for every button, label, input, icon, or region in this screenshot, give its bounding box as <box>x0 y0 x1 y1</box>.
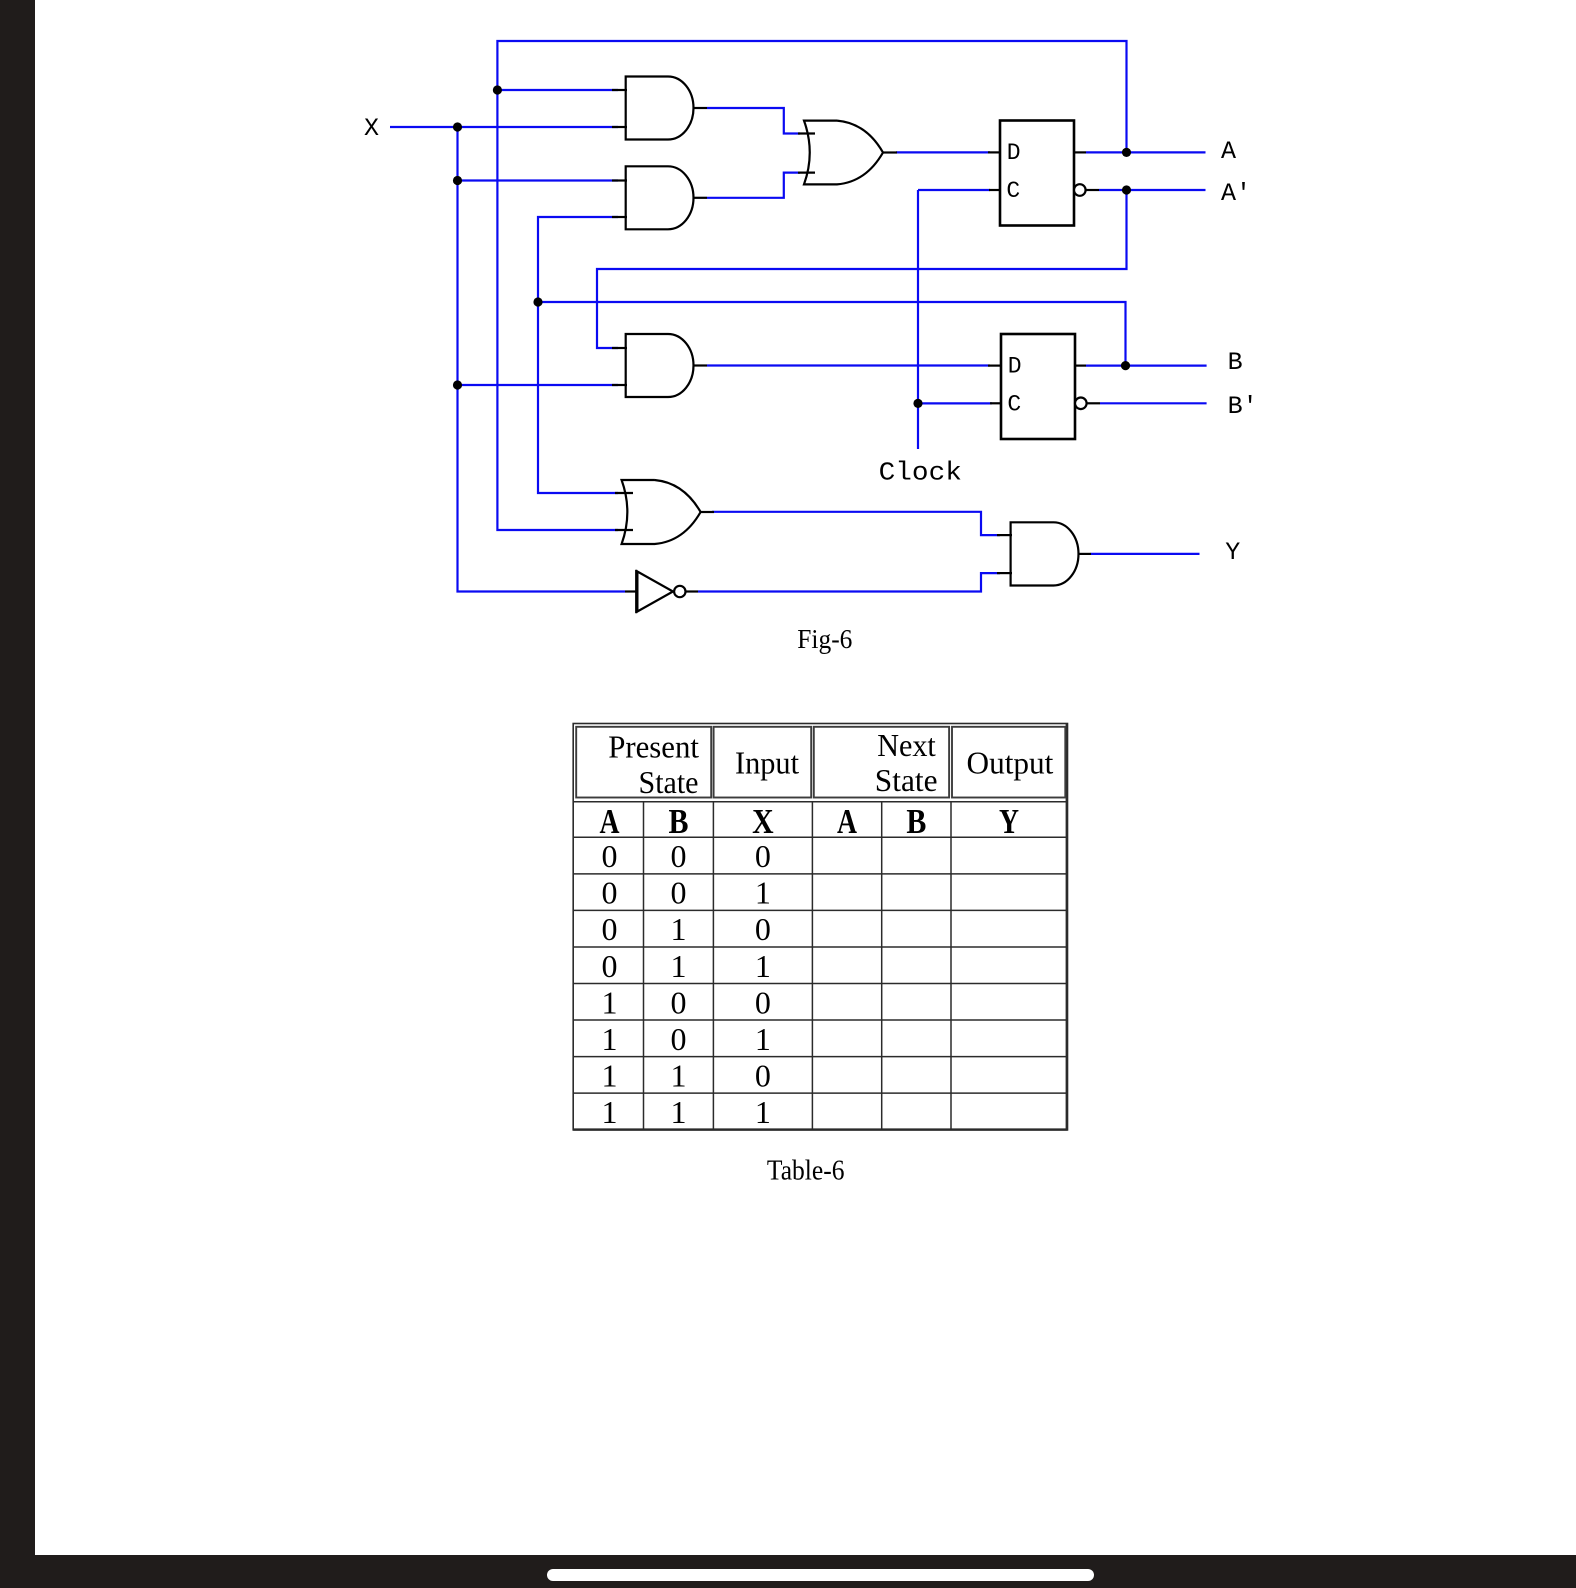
svg-text:1: 1 <box>602 984 618 1020</box>
svg-text:B': B' <box>1228 392 1258 421</box>
svg-text:Next: Next <box>877 727 936 763</box>
svg-text:Present: Present <box>608 728 699 764</box>
svg-text:Y: Y <box>999 802 1019 841</box>
svg-text:C: C <box>1006 178 1020 204</box>
svg-text:State: State <box>639 764 699 800</box>
svg-text:C: C <box>1007 392 1021 418</box>
svg-text:D: D <box>1008 353 1022 379</box>
svg-text:0: 0 <box>755 838 771 874</box>
svg-text:0: 0 <box>671 838 687 874</box>
svg-text:1: 1 <box>602 1094 618 1130</box>
svg-text:1: 1 <box>602 1021 618 1057</box>
svg-text:B: B <box>1228 348 1243 377</box>
svg-text:1: 1 <box>671 1094 687 1130</box>
svg-text:A: A <box>1221 137 1236 166</box>
svg-text:1: 1 <box>602 1057 618 1093</box>
svg-text:B: B <box>669 802 689 841</box>
svg-text:0: 0 <box>602 911 618 947</box>
svg-text:A': A' <box>1221 179 1251 208</box>
svg-text:0: 0 <box>755 984 771 1020</box>
svg-text:0: 0 <box>602 948 618 984</box>
svg-text:0: 0 <box>602 875 618 911</box>
svg-text:Clock: Clock <box>879 458 962 488</box>
svg-text:0: 0 <box>671 984 687 1020</box>
svg-text:Fig-6: Fig-6 <box>797 624 852 654</box>
svg-text:1: 1 <box>671 948 687 984</box>
svg-text:X: X <box>752 802 774 841</box>
svg-text:0: 0 <box>602 838 618 874</box>
svg-text:0: 0 <box>755 1057 771 1093</box>
svg-text:State: State <box>875 762 938 798</box>
svg-text:Output: Output <box>967 745 1054 781</box>
svg-text:Input: Input <box>735 745 799 781</box>
svg-text:A: A <box>600 802 621 841</box>
svg-text:A: A <box>837 802 858 841</box>
svg-text:0: 0 <box>671 1021 687 1057</box>
svg-text:1: 1 <box>755 1021 771 1057</box>
svg-text:0: 0 <box>671 875 687 911</box>
svg-text:B: B <box>906 802 926 841</box>
svg-text:X: X <box>364 114 379 143</box>
svg-text:Y: Y <box>1225 538 1240 567</box>
svg-text:1: 1 <box>755 948 771 984</box>
svg-text:D: D <box>1007 140 1021 166</box>
svg-text:1: 1 <box>755 875 771 911</box>
svg-text:1: 1 <box>755 1094 771 1130</box>
svg-text:0: 0 <box>755 911 771 947</box>
svg-text:1: 1 <box>671 1057 687 1093</box>
svg-text:Table-6: Table-6 <box>767 1156 845 1187</box>
svg-text:1: 1 <box>671 911 687 947</box>
